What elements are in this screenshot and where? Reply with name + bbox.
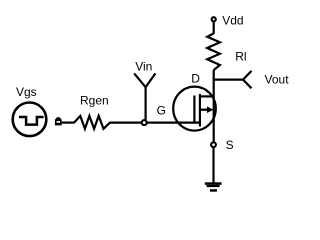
gate plate: [193, 96, 195, 124]
resistor Rgen: [74, 116, 110, 129]
svg-text:S: S: [226, 138, 234, 152]
resistor Rl: [207, 33, 220, 70]
Vout arrow: [243, 71, 252, 88]
terminal Vdd: [212, 17, 216, 21]
pulse waveform inside Vgs: [19, 117, 44, 125]
wire node G to transistor: [144, 121, 200, 123]
wire Vdd to Rl: [213, 22, 215, 34]
svg-text:Rgen: Rgen: [80, 93, 109, 107]
channel line: [199, 94, 201, 127]
node G: [142, 120, 147, 125]
svg-text:D: D: [191, 72, 200, 86]
output Vout branch: [214, 78, 243, 80]
body line: [199, 109, 209, 111]
wire terminal to Rgen: [62, 121, 75, 123]
svg-text:Vout: Vout: [265, 72, 290, 86]
wire Rgen to node G: [110, 121, 142, 123]
ground: [205, 182, 222, 191]
svg-text:Vin: Vin: [135, 60, 152, 74]
svg-text:Vdd: Vdd: [222, 14, 243, 28]
wire Rl to node S (main vertical): [213, 70, 215, 143]
body arrow: [207, 106, 213, 113]
drain connection: [200, 95, 214, 97]
svg-text:G: G: [157, 103, 166, 117]
voltage source Vgs: [13, 103, 47, 137]
terminal (input square): [55, 117, 62, 125]
svg-text:Rl: Rl: [235, 50, 246, 64]
node S: [211, 142, 216, 147]
wire node S to ground: [212, 147, 214, 183]
input Vin antenna: [134, 73, 155, 120]
svg-text:Vgs: Vgs: [16, 85, 37, 99]
transistor envelope: [173, 87, 216, 131]
